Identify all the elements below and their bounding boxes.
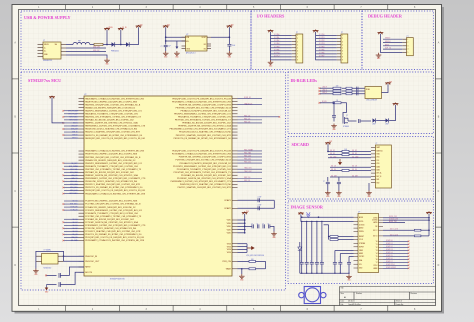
sensor caps bottom rail bbox=[300, 272, 349, 274]
svg-text:C?: C? bbox=[300, 260, 302, 262]
svg-text:SD_DET: SD_DET bbox=[331, 175, 337, 177]
sensor caps row bbox=[301, 260, 303, 263]
svg-text:IO_PD0: IO_PD0 bbox=[319, 34, 325, 36]
sensor pin names bbox=[359, 216, 378, 270]
svg-text:Title: Title bbox=[341, 287, 344, 290]
svg-text:PB13/QSPI_BK1_IO1/OTG_FS_DM/QS: PB13/QSPI_BK1_IO1/OTG_FS_DM/QSPI_BK1_IO1… bbox=[85, 190, 145, 192]
crystal Y1 bbox=[42, 254, 59, 265]
vdd rail vertical bbox=[244, 217, 246, 233]
power port ir leds bbox=[395, 105, 397, 107]
sensor top wire row1 bbox=[301, 216, 354, 218]
svg-text:Size: Size bbox=[341, 293, 344, 295]
power port rgb bbox=[387, 84, 389, 87]
svg-text:PA0/USART2_CTS/ADC123_IN0/TIM2: PA0/USART2_CTS/ADC123_IN0/TIM2_CH1_ETR/E… bbox=[85, 97, 144, 100]
svg-text:PD2/USART2_CTS/ADC123_IN0/TIM2: PD2/USART2_CTS/ADC123_IN0/TIM2_CH1_ETR/E… bbox=[85, 239, 145, 242]
svg-text:Y4: Y4 bbox=[376, 253, 378, 255]
svg-text:EXPST: EXPST bbox=[359, 246, 364, 248]
svg-text:VDD: VDD bbox=[227, 220, 232, 222]
svg-text:SD_D2: SD_D2 bbox=[330, 150, 335, 152]
svg-text:PD14/SAI2_SD_B/DCMI_D2/QSPI_BK: PD14/SAI2_SD_B/DCMI_D2/QSPI_BK1_IO1/FMC_… bbox=[181, 174, 232, 177]
svg-text:SD_CK: SD_CK bbox=[352, 166, 357, 168]
svg-text:PC4/UART4_TX/USART2_CTS/QSPI_B: PC4/UART4_TX/USART2_CTS/QSPI_BK1_IO1/TIM… bbox=[85, 212, 139, 215]
svg-text:PH0/OSC_IN: PH0/OSC_IN bbox=[85, 256, 97, 258]
svg-text:PA13/QSPI_BK1_IO1/OTG_FS_DM/QS: PA13/QSPI_BK1_IO1/OTG_FS_DM/QSPI_BK1_IO1… bbox=[85, 137, 145, 140]
net labels P1 bbox=[274, 33, 280, 57]
debug gnd wire bbox=[380, 36, 402, 52]
svg-text:FMC_D4: FMC_D4 bbox=[244, 115, 250, 117]
svg-text:OpenMV.SchDoc: OpenMV.SchDoc bbox=[348, 304, 361, 306]
svg-text:Y3: Y3 bbox=[376, 250, 378, 252]
mcu right pins bbox=[232, 99, 238, 269]
svg-text:PB7/SAI2_SD_B/DCMI_D2/QSPI_BK1: PB7/SAI2_SD_B/DCMI_D2/QSPI_BK1_IO1/FMC_D… bbox=[85, 171, 134, 174]
svg-text:PD13/TIM2_CH1_ETR/UART4_TX/TIM: PD13/TIM2_CH1_ETR/UART4_TX/TIM2_CH1_ETR/… bbox=[174, 171, 232, 174]
region box IMAGE SENSOR bbox=[288, 201, 434, 284]
power port 5V0 at regulator bbox=[165, 27, 167, 30]
svg-text:VSS: VSS bbox=[227, 249, 232, 251]
wire down to output cap bbox=[228, 37, 230, 44]
ground debug bbox=[376, 53, 382, 57]
svg-text:PD9/TIM5_CH1/QSPI_BK1_IO1/TIM2: PD9/TIM5_CH1/QSPI_BK1_IO1/TIM2_CH1_ETR/S… bbox=[176, 159, 232, 162]
svg-text:P?: P? bbox=[341, 32, 343, 34]
svg-text:IO_PD3: IO_PD3 bbox=[319, 43, 325, 45]
regulator U2 AP2112K bbox=[186, 36, 208, 51]
vcap cap C5 bbox=[258, 206, 259, 210]
svg-text:SD_D0: SD_D0 bbox=[352, 169, 357, 171]
svg-text:DCMI_D7: DCMI_D7 bbox=[386, 261, 393, 263]
svg-text:USB_DM: USB_DM bbox=[93, 46, 100, 48]
title block text bbox=[341, 287, 418, 306]
svg-text:FMC_D5: FMC_D5 bbox=[244, 118, 250, 120]
mcu left pins bbox=[79, 99, 85, 273]
wire D2 to rail corner bbox=[130, 31, 139, 45]
svg-text:22uF: 22uF bbox=[232, 45, 236, 47]
svg-text:PMEG2005: PMEG2005 bbox=[111, 50, 119, 52]
svg-text:FB?: FB? bbox=[78, 40, 81, 42]
nrst wire bbox=[47, 274, 57, 276]
svg-text:3V3: 3V3 bbox=[246, 211, 249, 213]
svg-text:PD10/ADC123_IN0/SPI1_NSS/QSPI_: PD10/ADC123_IN0/SPI1_NSS/QSPI_BK1_IO1/DC… bbox=[179, 162, 231, 165]
svg-text:PE1/USART2_CTS/ADC123_IN0/TIM2: PE1/USART2_CTS/ADC123_IN0/TIM2_CH1_ETR/E… bbox=[172, 100, 231, 103]
wire up to VBUS power bbox=[106, 33, 108, 45]
svg-text:HREF: HREF bbox=[359, 253, 363, 255]
region box DEBUG HEADER bbox=[362, 11, 434, 70]
svg-text:HREF: HREF bbox=[373, 268, 377, 270]
sensor right top wires bbox=[383, 217, 429, 219]
header P2 bbox=[341, 34, 348, 63]
wire fuse to diode bbox=[103, 44, 112, 46]
svg-text:PE12/I2C1_SDA/TIM5_CH1/QSPI_BK: PE12/I2C1_SDA/TIM5_CH1/QSPI_BK1_IO1/TIM2… bbox=[176, 134, 232, 137]
svg-text:3V3: 3V3 bbox=[231, 24, 234, 26]
sd cap 2 bbox=[338, 177, 340, 182]
decoupling wires bbox=[245, 225, 252, 227]
rgb resistor R5 bbox=[333, 93, 341, 95]
gnd wire P1 bbox=[271, 34, 292, 60]
svg-text:PE4/ADC123_IN0/SPI1_NSS/QSPI_B: PE4/ADC123_IN0/SPI1_NSS/QSPI_BK1_IO1/DCM… bbox=[181, 109, 232, 112]
net labels P2 bbox=[319, 34, 325, 57]
svg-text:PB1/ETH_MII_CRS/FMC_D02/QSPI_B: PB1/ETH_MII_CRS/FMC_D02/QSPI_BK1_IO1/SPI… bbox=[85, 154, 138, 156]
svg-text:C?: C? bbox=[339, 260, 341, 262]
usb connector J1 bbox=[43, 42, 61, 59]
svg-text:DCMI_D0: DCMI_D0 bbox=[386, 240, 393, 242]
sd wire rows mid bbox=[330, 166, 371, 168]
rgb row wires bbox=[320, 87, 333, 89]
svg-text:DCMI_HSYNC: DCMI_HSYNC bbox=[386, 267, 397, 269]
mcu right net labels bbox=[244, 97, 253, 182]
svg-text:PWDN: PWDN bbox=[359, 231, 364, 233]
svg-text:VSS: VSS bbox=[376, 163, 379, 165]
svg-text:A4: A4 bbox=[344, 296, 346, 299]
svg-text:PE13/OTG_FS_DM/SAI2_SD_B/TIM2_: PE13/OTG_FS_DM/SAI2_SD_B/TIM2_CH1_ETR/SD… bbox=[174, 137, 232, 140]
svg-text:PA9/SDMMC1_D0/TIM2_CH1_ETR/QSP: PA9/SDMMC1_D0/TIM2_CH1_ETR/QSPI_BK1_IO1/… bbox=[85, 125, 146, 128]
ir gate row bbox=[320, 102, 333, 104]
svg-text:PE10/SDMMC1_D0/TIM2_CH1_ETR/QS: PE10/SDMMC1_D0/TIM2_CH1_ETR/QSPI_BK1_IO1… bbox=[170, 128, 232, 131]
wire up to 3V3 power bbox=[228, 31, 230, 38]
svg-text:PC7/FMC_D02/ETH_MII_CRS/TIM2_C: PC7/FMC_D02/ETH_MII_CRS/TIM2_CH1_ETR/I2C… bbox=[85, 221, 138, 224]
svg-text:Drawn By:: Drawn By: bbox=[396, 303, 404, 306]
svg-text:PE7/TIM2_CH1_ETR/UART4_TX/TIM2: PE7/TIM2_CH1_ETR/UART4_TX/TIM2_CH1_ETR/U… bbox=[175, 119, 232, 122]
pdr resistor R1 bbox=[249, 260, 256, 262]
sensor right data rows bbox=[383, 241, 408, 268]
svg-text:SIO_C 4.7K: SIO_C 4.7K bbox=[390, 229, 398, 231]
wires to header P2 bbox=[316, 36, 337, 57]
svg-text:IO_PE4: IO_PE4 bbox=[319, 46, 325, 48]
junction vin bbox=[165, 36, 167, 38]
mcu right pin names bbox=[170, 98, 232, 270]
svg-text:SD_D2: SD_D2 bbox=[352, 150, 357, 152]
svg-text:VBUS: VBUS bbox=[108, 27, 112, 29]
svg-text:File:: File: bbox=[341, 304, 345, 306]
vcap cap C4 bbox=[258, 198, 259, 202]
usb data wires bbox=[66, 47, 106, 49]
svg-text:PB2/TIM5_CH1/QSPI_BK1_IO1/TIM2: PB2/TIM5_CH1/QSPI_BK1_IO1/TIM2_CH1_ETR/S… bbox=[85, 156, 141, 159]
svg-text:PC8/SDMMC1_D0/TIM2_CH1_ETR/QSP: PC8/SDMMC1_D0/TIM2_CH1_ETR/QSPI_BK1_IO1/… bbox=[85, 224, 146, 227]
gate cap gnd bbox=[331, 124, 337, 128]
svg-text:PB8/FMC_D02/ETH_MII_CRS/TIM2_C: PB8/FMC_D02/ETH_MII_CRS/TIM2_CH1_ETR/I2C… bbox=[85, 174, 138, 177]
sd pullup resistors 2 bbox=[342, 169, 349, 171]
mcu left pin names bbox=[85, 97, 146, 274]
vss rows bbox=[238, 243, 248, 245]
wire VBUS from USB bbox=[66, 44, 73, 46]
svg-text:SWCLK: SWCLK bbox=[385, 41, 391, 43]
ground under crystal bbox=[33, 269, 39, 273]
power port 3V3 bbox=[228, 27, 230, 30]
svg-text:VOUT: VOUT bbox=[201, 37, 206, 39]
svg-text:5V0: 5V0 bbox=[140, 24, 143, 26]
svg-text:Revision: Revision bbox=[411, 293, 418, 295]
svg-text:PA7/SAI2_SD_B/DCMI_D2/QSPI_BK1: PA7/SAI2_SD_B/DCMI_D2/QSPI_BK1_IO1/FMC_D… bbox=[85, 119, 134, 122]
svg-text:SCL: SCL bbox=[359, 264, 362, 266]
rgb resistor R3 bbox=[333, 87, 341, 89]
svg-text:VCP_TX: VCP_TX bbox=[385, 48, 391, 50]
svg-text:DVDD_1V5: DVDD_1V5 bbox=[389, 216, 397, 218]
svg-text:VDD: VDD bbox=[227, 226, 232, 228]
svg-text:PCLK: PCLK bbox=[374, 265, 378, 267]
sensor pullup resistors bbox=[328, 225, 330, 240]
svg-text:LED_G: LED_G bbox=[322, 89, 328, 91]
ground P1 bbox=[268, 60, 274, 64]
svg-text:VDD: VDD bbox=[227, 233, 232, 235]
svg-text:IO_PB4: IO_PB4 bbox=[274, 46, 280, 48]
svg-text:PA3/ADC123_IN0/SPI1_NSS/QSPI_B: PA3/ADC123_IN0/SPI1_NSS/QSPI_BK1_IO1/DCM… bbox=[85, 106, 136, 109]
ir led D4 bbox=[386, 118, 389, 122]
svg-text:P?: P? bbox=[407, 36, 409, 38]
sd connector ground bbox=[368, 183, 370, 191]
svg-text:PD1/QSPI_BK1_IO1/OTG_FS_DM/QSP: PD1/QSPI_BK1_IO1/OTG_FS_DM/QSPI_BK1_IO1/… bbox=[85, 237, 144, 239]
output cap C2 bbox=[227, 45, 231, 46]
sd pullup resistors bbox=[342, 150, 349, 152]
vcap wires bbox=[238, 199, 275, 201]
svg-text:VSS: VSS bbox=[227, 246, 232, 248]
svg-text:IO_PD2: IO_PD2 bbox=[319, 40, 325, 42]
svg-text:PE2/ETH_MII_CRS/FMC_D02/QSPI_B: PE2/ETH_MII_CRS/FMC_D02/QSPI_BK1_IO1/SPI… bbox=[179, 104, 232, 106]
svg-text:VSS: VSS bbox=[227, 252, 232, 254]
svg-text:SD_DET: SD_DET bbox=[352, 175, 358, 177]
debug header J2 bbox=[407, 38, 414, 56]
svg-text:PC5/TIM2_CH1_ETR/UART4_TX/TIM2: PC5/TIM2_CH1_ETR/UART4_TX/TIM2_CH1_ETR/U… bbox=[85, 215, 142, 218]
ground decoupling bbox=[271, 232, 277, 236]
power port debug bbox=[379, 34, 381, 36]
wire after ferrite bbox=[90, 44, 94, 46]
svg-text:PE0/QSPI_BK1_IO1/OTG_FS_DM/QSP: PE0/QSPI_BK1_IO1/OTG_FS_DM/QSPI_BK1_IO1/… bbox=[172, 98, 231, 100]
mcu left net labels bbox=[68, 110, 78, 242]
decoupling caps row bbox=[252, 224, 253, 228]
svg-text:C?: C? bbox=[257, 224, 259, 226]
power port mcu vdd left bbox=[51, 98, 53, 101]
power port header P2 bbox=[315, 32, 317, 34]
rgb led power wire bbox=[382, 87, 389, 92]
svg-text:STM32F765VGT6: STM32F765VGT6 bbox=[110, 279, 125, 281]
svg-text:DET_B: DET_B bbox=[376, 176, 381, 178]
svg-text:PB3/ADC123_IN0/SPI1_NSS/QSPI_B: PB3/ADC123_IN0/SPI1_NSS/QSPI_BK1_IO1/DCM… bbox=[85, 159, 136, 162]
svg-text:Y1: Y1 bbox=[376, 244, 378, 246]
wire cap to ground bbox=[165, 47, 167, 51]
svg-text:NX3225GD: NX3225GD bbox=[44, 268, 53, 270]
vss gnd arrow bbox=[247, 247, 254, 250]
region box SDCARD bbox=[288, 137, 434, 200]
sensor aux port symbol bbox=[307, 212, 311, 217]
svg-text:Y6: Y6 bbox=[376, 259, 378, 261]
svg-text:NTR4003: NTR4003 bbox=[343, 126, 349, 128]
junction sd vdd bbox=[327, 151, 329, 153]
svg-text:PA6/TIM2_CH1_ETR/UART4_TX/TIM2: PA6/TIM2_CH1_ETR/UART4_TX/TIM2_CH1_ETR/U… bbox=[85, 116, 141, 119]
wire to EN bbox=[166, 40, 186, 42]
ferrite bead FB1 bbox=[73, 42, 90, 44]
svg-text:DCMI_D1: DCMI_D1 bbox=[386, 243, 393, 245]
wire to ground out bbox=[228, 46, 230, 51]
svg-text:PB12/OTG_FS_DM/SAI2_SD_B/TIM2_: PB12/OTG_FS_DM/SAI2_SD_B/TIM2_CH1_ETR/SD… bbox=[85, 186, 143, 189]
ir gate resistor R6 bbox=[333, 102, 341, 104]
svg-text:Date:: Date: bbox=[341, 300, 346, 303]
svg-text:IR-RGB LEDs: IR-RGB LEDs bbox=[291, 78, 318, 83]
svg-text:IR_EN: IR_EN bbox=[322, 101, 326, 103]
region box STM32F7xx MCU bbox=[21, 72, 286, 290]
svg-text:PB0/USART2_CTS/ADC123_IN0/TIM2: PB0/USART2_CTS/ADC123_IN0/TIM2_CH1_ETR/E… bbox=[85, 150, 144, 153]
svg-text:IO_PD1: IO_PD1 bbox=[319, 37, 325, 39]
ground for usb bbox=[104, 58, 110, 62]
region box IR-RGB LEDs bbox=[288, 72, 434, 134]
svg-text:SIO_D 4.7K: SIO_D 4.7K bbox=[390, 234, 398, 236]
nrst wire to pin bbox=[60, 267, 84, 275]
svg-text:4/1/2021: 4/1/2021 bbox=[348, 301, 355, 303]
svg-text:VDD: VDD bbox=[227, 229, 232, 231]
mosfet Q1 bbox=[343, 117, 348, 124]
svg-text:VDD_MCU DECOUPLING: VDD_MCU DECOUPLING bbox=[246, 255, 265, 257]
svg-text:C?: C? bbox=[262, 224, 264, 226]
wire D1 to D2 bbox=[115, 44, 126, 46]
ground under C2 bbox=[227, 51, 233, 55]
svg-text:J?: J? bbox=[43, 40, 45, 42]
svg-text:STROBE: STROBE bbox=[359, 243, 365, 245]
svg-text:NRST: NRST bbox=[385, 44, 389, 46]
sensor right data crosses bbox=[408, 241, 410, 243]
sd wire rows top bbox=[328, 150, 371, 152]
sensor ic U4 bbox=[358, 214, 379, 273]
svg-text:Sheet of: Sheet of bbox=[396, 300, 403, 303]
svg-text:VSS: VSS bbox=[227, 243, 232, 245]
svg-text:RESET: RESET bbox=[359, 236, 364, 238]
gnd wire P2 bbox=[316, 34, 337, 60]
svg-text:PE11/DCMI_D2/I2C1_SDA/TIM2_CH1: PE11/DCMI_D2/I2C1_SDA/TIM2_CH1_ETR/ADC12… bbox=[179, 131, 232, 134]
svg-text:VCAP2: VCAP2 bbox=[224, 207, 231, 210]
svg-text:XCLK: XCLK bbox=[359, 239, 363, 241]
svg-text:SH1: SH1 bbox=[376, 179, 379, 181]
svg-text:LED?: LED? bbox=[372, 124, 376, 126]
svg-text:PB6/TIM2_CH1_ETR/UART4_TX/TIM2: PB6/TIM2_CH1_ETR/UART4_TX/TIM2_CH1_ETR/U… bbox=[85, 168, 142, 171]
sd wire row det bbox=[330, 176, 371, 178]
svg-text:10K: 10K bbox=[344, 149, 347, 151]
svg-text:DOVDD: DOVDD bbox=[372, 220, 378, 222]
power port VIN5V bbox=[120, 30, 122, 33]
svg-text:VBAT: VBAT bbox=[226, 268, 232, 271]
svg-text:C?: C? bbox=[251, 224, 253, 226]
svg-text:USB-MICRO: USB-MICRO bbox=[43, 60, 53, 62]
region box I/O HEADERS bbox=[251, 11, 362, 70]
svg-text:PB10/DCMI_D2/I2C1_SDA/TIM2_CH1: PB10/DCMI_D2/I2C1_SDA/TIM2_CH1_ETR/ADC12… bbox=[85, 180, 138, 183]
wire up to 5V input power bbox=[120, 33, 122, 45]
svg-text:NRST: NRST bbox=[85, 267, 91, 269]
svg-text:SD_D3: SD_D3 bbox=[330, 153, 335, 155]
svg-text:2.2uF: 2.2uF bbox=[258, 205, 262, 207]
sd mid red arrow bbox=[339, 159, 342, 165]
svg-text:DCMI_D4: DCMI_D4 bbox=[386, 252, 393, 254]
svg-text:LED_B: LED_B bbox=[322, 92, 327, 94]
svg-text:PC0/ETH_MII_CRS/FMC_D02/QSPI_B: PC0/ETH_MII_CRS/FMC_D02/QSPI_BK1_IO1/SPI… bbox=[85, 201, 138, 203]
svg-text:C?: C? bbox=[268, 224, 270, 226]
sd caps bbox=[327, 177, 329, 182]
fuse F1 bbox=[94, 43, 103, 45]
svg-text:PC2/ADC123_IN0/SPI1_NSS/QSPI_B: PC2/ADC123_IN0/SPI1_NSS/QSPI_BK1_IO1/DCM… bbox=[85, 206, 136, 209]
power port VBUS bbox=[106, 30, 108, 33]
svg-text:PD0/OTG_FS_DM/SAI2_SD_B/TIM2_C: PD0/OTG_FS_DM/SAI2_SD_B/TIM2_CH1_ETR/SDM… bbox=[85, 233, 142, 236]
svg-text:PC1/TIM5_CH1/QSPI_BK1_IO1/TIM2: PC1/TIM5_CH1/QSPI_BK1_IO1/TIM2_CH1_ETR/S… bbox=[85, 203, 141, 206]
crystal loop wires bbox=[36, 251, 64, 268]
svg-text:PA12/OTG_FS_DM/SAI2_SD_B/TIM2_: PA12/OTG_FS_DM/SAI2_SD_B/TIM2_CH1_ETR/SD… bbox=[85, 134, 143, 137]
ir led wire bbox=[348, 120, 357, 122]
svg-text:PD6/QSPI_BK1_IO1/OTG_FS_DM/QSP: PD6/QSPI_BK1_IO1/OTG_FS_DM/QSPI_BK1_IO1/… bbox=[172, 151, 231, 153]
pdr loop wires bbox=[238, 260, 266, 262]
svg-text:3V3: 3V3 bbox=[329, 141, 332, 143]
svg-text:PB11/I2C1_SDA/TIM5_CH1/QSPI_BK: PB11/I2C1_SDA/TIM5_CH1/QSPI_BK1_IO1/TIM2… bbox=[85, 183, 140, 186]
svg-text:P?: P? bbox=[296, 32, 298, 34]
power port 5V0 bbox=[138, 27, 140, 30]
svg-text:Q?: Q? bbox=[346, 115, 348, 117]
svg-text:IO_PE7: IO_PE7 bbox=[319, 55, 325, 57]
sensor top wire row2 bbox=[301, 217, 354, 221]
svg-text:SDCARD: SDCARD bbox=[292, 142, 309, 147]
rgb series caps bbox=[357, 87, 359, 90]
ir led D3 bbox=[373, 118, 376, 122]
svg-text:220: 220 bbox=[336, 86, 339, 88]
svg-text:DCMI_PCLK: DCMI_PCLK bbox=[386, 264, 395, 266]
title block bbox=[340, 287, 436, 306]
svg-text:PC9/DCMI_D2/I2C1_SDA/TIM2_CH1_: PC9/DCMI_D2/I2C1_SDA/TIM2_CH1_ETR/ADC123… bbox=[85, 227, 137, 230]
svg-text:PA5/UART4_TX/USART2_CTS/QSPI_B: PA5/UART4_TX/USART2_CTS/QSPI_BK1_IO1/TIM… bbox=[85, 113, 139, 116]
nrst cap C3 bbox=[59, 273, 60, 278]
svg-text:IO_PC7: IO_PC7 bbox=[274, 55, 280, 57]
junction at VBUS rail bbox=[106, 44, 108, 46]
regulator input rail wire bbox=[165, 31, 167, 45]
svg-text:PE5/SPI1_NSS/SDMMC1_D0/TIM2_CH: PE5/SPI1_NSS/SDMMC1_D0/TIM2_CH1_ETR/QSPI… bbox=[174, 114, 232, 116]
wire VOUT to 3V3 bbox=[211, 36, 229, 38]
sd power rail bbox=[327, 147, 329, 151]
svg-text:PE3/TIM5_CH1/QSPI_BK1_IO1/TIM2: PE3/TIM5_CH1/QSPI_BK1_IO1/TIM2_CH1_ETR/S… bbox=[176, 106, 232, 109]
svg-text:PH3/DCMI_D2/I2C1_SDA/TIM2_CH1_: PH3/DCMI_D2/I2C1_SDA/TIM2_CH1_ETR/ADC123… bbox=[180, 183, 232, 186]
power port header P1 bbox=[270, 32, 272, 34]
svg-text:Number: Number bbox=[356, 292, 362, 295]
sensor ground bbox=[346, 274, 352, 278]
usb gnd wire bbox=[66, 55, 107, 58]
svg-text:DCMI_D5: DCMI_D5 bbox=[386, 255, 393, 257]
svg-text:SD_D0: SD_D0 bbox=[331, 169, 336, 171]
wires to debug header bbox=[383, 39, 402, 49]
svg-text:DCMI_D3: DCMI_D3 bbox=[386, 249, 393, 251]
svg-text:PE9/FMC_D02/ETH_MII_CRS/TIM2_C: PE9/FMC_D02/ETH_MII_CRS/TIM2_CH1_ETR/I2C… bbox=[178, 125, 231, 128]
svg-text:IO_PC6: IO_PC6 bbox=[274, 52, 280, 54]
net labels debug bbox=[385, 38, 391, 50]
svg-text:DCMI_D2: DCMI_D2 bbox=[386, 246, 393, 248]
svg-text:SD_CMD: SD_CMD bbox=[330, 156, 337, 158]
pdr ground bbox=[241, 269, 243, 274]
ground under EN divider bbox=[174, 51, 180, 55]
mcu vdd left wire bbox=[52, 101, 64, 123]
svg-text:PB9/SDMMC1_D0/TIM2_CH1_ETR/QSP: PB9/SDMMC1_D0/TIM2_CH1_ETR/QSPI_BK1_IO1/… bbox=[85, 177, 146, 180]
svg-text:PA8/FMC_D02/ETH_MII_CRS/TIM2_C: PA8/FMC_D02/ETH_MII_CRS/TIM2_CH1_ETR/I2C… bbox=[85, 122, 138, 125]
wire to VIN bbox=[166, 36, 186, 38]
svg-text:C?: C? bbox=[323, 181, 325, 183]
svg-text:Y5: Y5 bbox=[376, 256, 378, 258]
sd card connector J3 bbox=[375, 145, 391, 188]
ir series part bbox=[359, 119, 361, 123]
svg-text:BOOT0: BOOT0 bbox=[85, 272, 93, 274]
ir led wire 2 bbox=[376, 120, 385, 122]
ir led supply wire bbox=[389, 107, 395, 121]
svg-text:PD11/SPI1_NSS/SDMMC1_D0/TIM2_C: PD11/SPI1_NSS/SDMMC1_D0/TIM2_CH1_ETR/QSP… bbox=[173, 166, 232, 168]
svg-text:C?: C? bbox=[310, 260, 312, 262]
ir gate wire bbox=[341, 103, 346, 118]
svg-text:SD_D3: SD_D3 bbox=[352, 153, 357, 155]
svg-text:PA2/TIM5_CH1/QSPI_BK1_IO1/TIM2: PA2/TIM5_CH1/QSPI_BK1_IO1/TIM2_CH1_ETR/S… bbox=[85, 103, 141, 106]
svg-text:C?: C? bbox=[161, 46, 163, 48]
svg-text:DEBUG HEADER: DEBUG HEADER bbox=[368, 14, 403, 19]
diode D1 PMEG2005 bbox=[112, 42, 115, 46]
sensor right power rail bbox=[428, 214, 430, 216]
svg-text:USB & POWER SUPPLY: USB & POWER SUPPLY bbox=[24, 15, 71, 20]
mcu left wires bbox=[64, 111, 79, 241]
svg-text:SH2: SH2 bbox=[376, 182, 379, 184]
junction between diodes bbox=[120, 44, 122, 46]
ground under C1 bbox=[163, 51, 169, 55]
svg-text:PH2/SDMMC1_D0/TIM2_CH1_ETR/QSP: PH2/SDMMC1_D0/TIM2_CH1_ETR/QSPI_BK1_IO1/… bbox=[171, 180, 232, 183]
